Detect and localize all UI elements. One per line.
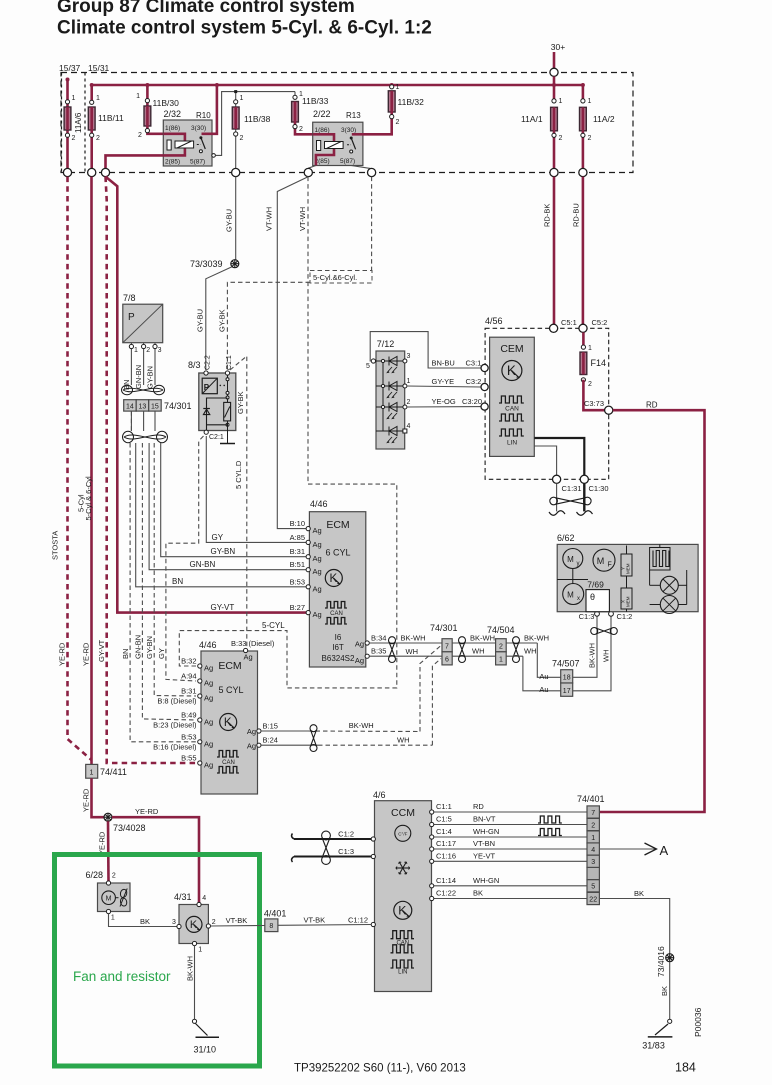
svg-text:2: 2: [407, 399, 411, 406]
heater element: [650, 544, 670, 570]
CCM K icon: [394, 901, 412, 919]
svg-text:74/411: 74/411: [100, 767, 127, 777]
fan resistor 4/31: [172, 892, 216, 954]
svg-text:GY-VT: GY-VT: [97, 639, 106, 662]
svg-text:C5:2: C5:2: [592, 318, 608, 327]
wire GY-BU to AC unit: [206, 267, 232, 370]
svg-text:WH: WH: [524, 647, 537, 656]
lamp 1: [650, 570, 687, 605]
wire RD from F14 to C3:73: [583, 380, 604, 410]
bus junction dots: [90, 83, 94, 87]
svg-text:3: 3: [591, 859, 595, 866]
svg-text:2/32: 2/32: [164, 109, 182, 119]
dashed BK-WH riser to pin7: [420, 646, 441, 732]
MEM X resistor: [621, 584, 633, 612]
svg-text:C3:73: C3:73: [584, 399, 604, 408]
svg-text:2: 2: [559, 135, 563, 142]
svg-text:BN: BN: [172, 577, 183, 586]
fuse 11B/33: [292, 91, 329, 134]
svg-text:GY-BK: GY-BK: [236, 391, 245, 414]
wire GY-BN solid to ECM6: [161, 443, 307, 557]
svg-text:Ag: Ag: [204, 718, 213, 727]
twisted bundle below connector: [124, 435, 166, 439]
svg-text:Group 87 Climate control syste: Group 87 Climate control system: [57, 0, 355, 17]
svg-text:C1:12: C1:12: [348, 916, 368, 925]
svg-text:5: 5: [591, 884, 595, 891]
svg-text:M: M: [567, 591, 574, 600]
svg-text:C2:2: C2:2: [205, 355, 212, 370]
wire YE-RD below 74/411: [92, 778, 105, 817]
wire GY dashed to ECM5 A:94: [166, 436, 204, 681]
svg-text:18: 18: [563, 675, 571, 682]
wires 74/301 to 74/504: [452, 642, 495, 644]
svg-text:30+: 30+: [551, 42, 565, 52]
svg-text:Ag: Ag: [204, 761, 213, 770]
svg-text:74/507: 74/507: [552, 659, 580, 669]
svg-text:CAN: CAN: [330, 611, 343, 617]
svg-text:C1:1: C1:1: [436, 802, 452, 811]
svg-text:B:24: B:24: [263, 736, 278, 745]
svg-text:GN-BN: GN-BN: [133, 635, 142, 659]
svg-text:GY-BN: GY-BN: [145, 636, 154, 659]
svg-text:11A/2: 11A/2: [593, 114, 615, 124]
wire WH-GN row C1: [433, 836, 588, 838]
svg-text:x: x: [577, 596, 580, 602]
wire WH-GN row C5: [433, 885, 588, 887]
svg-text:1: 1: [588, 98, 592, 105]
connector 74/301 pins 14 13 15: [124, 400, 192, 411]
svg-text:TP39252202 S60 (11-), V60 2013: TP39252202 S60 (11-), V60 2013: [294, 1063, 466, 1075]
wire BN-VT row C2: [433, 824, 588, 826]
svg-text:VT-WH: VT-WH: [265, 207, 274, 231]
svg-text:1: 1: [72, 95, 76, 102]
ECM5 left pins: [198, 664, 202, 668]
node C3:1: [481, 364, 488, 371]
svg-text:C5:1: C5:1: [561, 318, 577, 327]
svg-text:Ag: Ag: [313, 567, 322, 576]
ECM6 right pins B:34 B:35: [365, 641, 369, 645]
svg-text:BK: BK: [140, 917, 150, 926]
wire GN-BN dashed to ECM5: [142, 443, 196, 720]
svg-text:2(85): 2(85): [165, 159, 180, 166]
svg-text:2: 2: [138, 132, 142, 139]
svg-text:13: 13: [139, 403, 147, 410]
svg-text:3: 3: [407, 353, 411, 360]
wire GY-VT solid 6cyl: [106, 177, 307, 613]
svg-text:Ag: Ag: [247, 742, 256, 751]
svg-text:M: M: [597, 556, 605, 566]
svg-text:BN-BU: BN-BU: [432, 359, 455, 368]
svg-text:YE-RD: YE-RD: [135, 807, 159, 816]
svg-text:BK-WH: BK-WH: [524, 634, 549, 643]
svg-text:C2:1: C2:1: [209, 434, 224, 441]
svg-text:11A/1: 11A/1: [521, 114, 543, 124]
svg-text:4/401: 4/401: [264, 909, 287, 919]
svg-text:Ag: Ag: [244, 653, 253, 662]
svg-text:C1:3: C1:3: [338, 847, 354, 856]
svg-text:C1:3: C1:3: [579, 612, 595, 621]
svg-text:B:51: B:51: [290, 560, 305, 569]
fuse 11A/2: [580, 98, 615, 168]
splice 73/4028: [104, 813, 112, 821]
svg-text:B:35: B:35: [371, 647, 386, 656]
lamp module 7/12: [366, 339, 411, 449]
wire VT-WH dashed 5cyl routing: [179, 177, 396, 688]
CEM module 4/56: [485, 316, 609, 479]
svg-text:BK-WH: BK-WH: [587, 643, 596, 668]
svg-text:Ag: Ag: [313, 554, 322, 563]
svg-text:GY-VT: GY-VT: [211, 603, 235, 612]
divider 15/37 box: [84, 73, 86, 173]
svg-text:73/4016: 73/4016: [656, 946, 666, 977]
svg-text:GY: GY: [157, 648, 166, 659]
svg-text:B:8 (Diesel): B:8 (Diesel): [157, 697, 197, 706]
svg-text:θ: θ: [590, 592, 595, 602]
fuse 11B/30: [136, 93, 179, 139]
svg-text:4/56: 4/56: [485, 316, 503, 326]
ECM6 left pins: [306, 527, 310, 531]
connector 74/411 pin 1: [86, 764, 98, 778]
fuse 11A/1: [521, 98, 563, 168]
svg-text:VT-BK: VT-BK: [226, 916, 248, 925]
svg-text:K: K: [507, 363, 516, 378]
CEM wire to C1:31: [534, 446, 556, 475]
svg-text:3: 3: [172, 919, 176, 926]
svg-text:74/301: 74/301: [430, 623, 458, 633]
wire YE-OG: [407, 406, 481, 408]
svg-text:3(30): 3(30): [341, 127, 356, 134]
wires up to 6/62: [573, 616, 597, 678]
svg-text:C1:2: C1:2: [338, 830, 354, 839]
thermostat 7/69: [586, 580, 609, 612]
power distribution box 15/31: [61, 73, 633, 173]
svg-text:CCM: CCM: [391, 807, 415, 819]
wire RD-BU: [582, 177, 585, 325]
fuse 11B/32: [364, 84, 425, 134]
connector 74/507 pins 18 17: [539, 659, 579, 697]
svg-text:VT-WH: VT-WH: [298, 207, 307, 231]
svg-text:1: 1: [240, 95, 244, 102]
twisted pair to CCM: [294, 838, 371, 840]
svg-text:Ag: Ag: [204, 679, 213, 688]
svg-text:1: 1: [198, 947, 202, 954]
svg-text:2: 2: [591, 822, 595, 829]
twist on BK-WH WH: [389, 637, 396, 644]
green highlight box fan and resistor: [55, 855, 260, 1067]
arrow A output: [599, 848, 655, 850]
svg-text:MEM: MEM: [626, 563, 631, 574]
CCM module 4/6: [373, 790, 432, 992]
svg-text:2: 2: [240, 135, 244, 142]
svg-text:6: 6: [445, 657, 449, 664]
svg-text:X: X: [621, 600, 626, 603]
svg-text:YE-RD: YE-RD: [98, 831, 107, 855]
svg-text:31/83: 31/83: [642, 1041, 665, 1051]
svg-text:1: 1: [407, 378, 411, 385]
wire BK to ground: [669, 962, 671, 1019]
CCM left pins: [371, 837, 375, 841]
ECM 4/46 6-cyl: [309, 499, 365, 667]
svg-text:WH-GN: WH-GN: [473, 876, 499, 885]
wire GY-BK dashed from annotation to AC relay: [227, 282, 310, 370]
svg-text:4/46: 4/46: [199, 640, 217, 650]
svg-text:15/37: 15/37: [59, 63, 81, 73]
wire GY-BU: [235, 177, 237, 260]
svg-text:8/3: 8/3: [188, 360, 201, 370]
wire VT-BK to 4/401: [211, 925, 265, 928]
wire GY-BN dashed to ECM5: [154, 443, 196, 696]
wire BK-WH from B:15: [261, 730, 308, 732]
svg-text:7/8: 7/8: [123, 293, 136, 303]
svg-text:BK-WH: BK-WH: [185, 956, 194, 981]
relay 2/22 R13: [308, 109, 371, 169]
svg-text:MEM: MEM: [626, 596, 631, 607]
svg-text:YE-VT: YE-VT: [473, 851, 496, 860]
twist on ECM5 pair: [310, 725, 317, 732]
svg-text:1: 1: [499, 657, 503, 664]
svg-text:C1:16: C1:16: [436, 851, 456, 860]
svg-text:WH: WH: [601, 650, 610, 663]
svg-text:C3:2: C3:2: [466, 377, 482, 386]
svg-text:8: 8: [269, 923, 273, 930]
svg-text:GY-BU: GY-BU: [196, 309, 205, 332]
annotation 5-Cyl.&6-Cyl.: [371, 177, 373, 271]
svg-text:7: 7: [591, 810, 595, 817]
svg-text:Au: Au: [539, 685, 548, 694]
connector 74/301 pins 7 6: [430, 623, 458, 665]
svg-text:C1:4: C1:4: [436, 827, 452, 836]
svg-text:17: 17: [563, 688, 571, 695]
svg-text:2: 2: [499, 644, 503, 651]
svg-text:BN-VT: BN-VT: [473, 815, 496, 824]
svg-text:VT-BK: VT-BK: [304, 916, 326, 925]
svg-text:5(87): 5(87): [190, 159, 205, 166]
svg-text:C3:1: C3:1: [466, 359, 482, 368]
wire VT-BN row C4: [433, 848, 588, 850]
splice 73/4016: [666, 954, 674, 962]
svg-text:73/3039: 73/3039: [190, 259, 223, 269]
svg-text:Ag: Ag: [313, 526, 322, 535]
svg-text:6 CYL: 6 CYL: [325, 548, 350, 558]
svg-text:3: 3: [158, 347, 162, 354]
svg-text:B:33 (Diesel): B:33 (Diesel): [231, 639, 275, 648]
svg-text:B6324S2: B6324S2: [322, 654, 355, 663]
svg-text:YE-OG: YE-OG: [432, 397, 456, 406]
svg-text:ECM: ECM: [326, 519, 349, 531]
control unit 7/8: [122, 293, 163, 390]
svg-text:BK-WH: BK-WH: [401, 634, 426, 643]
svg-text:B:53: B:53: [290, 577, 305, 586]
splice 73/3039: [231, 260, 239, 268]
svg-text:C°/F: C°/F: [398, 832, 407, 837]
svg-text:7/69: 7/69: [587, 580, 604, 590]
svg-text:1: 1: [591, 835, 595, 842]
svg-text:GY-YE: GY-YE: [432, 377, 455, 386]
wire YE-VT row C3: [433, 860, 588, 862]
svg-text:74/401: 74/401: [577, 794, 605, 804]
svg-text:2: 2: [112, 873, 116, 880]
svg-text:4: 4: [407, 423, 411, 430]
CCM CAN LIN: [391, 931, 414, 939]
wire GY-VT dashed 5cyl: [106, 177, 197, 763]
svg-text:2: 2: [146, 347, 150, 354]
svg-text:RD-BK: RD-BK: [543, 204, 552, 227]
svg-text:5 CYL.D: 5 CYL.D: [234, 460, 243, 489]
svg-text:CAN: CAN: [505, 406, 519, 413]
CEM LIN wire: [534, 438, 584, 475]
node C5:1: [550, 324, 558, 332]
svg-text:5: 5: [366, 363, 370, 370]
wire YE-RD to fan relay: [112, 817, 199, 902]
svg-text:WH: WH: [397, 736, 410, 745]
svg-text:B:10: B:10: [290, 519, 305, 528]
svg-text:CEM: CEM: [500, 343, 523, 355]
svg-text:GY: GY: [212, 533, 224, 542]
svg-text:4: 4: [591, 847, 595, 854]
svg-text:2: 2: [212, 919, 216, 926]
svg-text:11B/30: 11B/30: [153, 98, 180, 108]
svg-text:Y: Y: [621, 567, 626, 570]
dashed WH riser to pin6: [432, 659, 441, 746]
svg-text:F: F: [608, 562, 612, 569]
svg-text:2: 2: [72, 135, 76, 142]
wire RD row C7: [433, 811, 588, 813]
svg-text:15/31: 15/31: [88, 63, 110, 73]
node C5:2: [579, 324, 587, 332]
svg-text:C1:5: C1:5: [436, 815, 452, 824]
svg-text:Ag: Ag: [313, 540, 322, 549]
svg-text:WH: WH: [406, 647, 419, 656]
svg-text:P: P: [204, 383, 210, 392]
svg-text:WH: WH: [472, 647, 485, 656]
svg-text:LIN: LIN: [507, 440, 517, 447]
fan motor 6/28: [86, 870, 131, 922]
svg-text:RD: RD: [646, 401, 658, 410]
svg-text:Ag: Ag: [355, 640, 364, 649]
svg-text:A:85: A:85: [290, 533, 305, 542]
svg-text:VT-BN: VT-BN: [473, 839, 495, 848]
svg-text:5-Cyl.&6-Cyl.: 5-Cyl.&6-Cyl.: [313, 273, 357, 282]
svg-text:I6: I6: [335, 633, 342, 642]
CCM snowflake icon: [396, 862, 410, 874]
wire BN dashed to ECM5: [130, 443, 196, 742]
svg-text:CAN: CAN: [222, 760, 235, 766]
svg-text:C3:20: C3:20: [462, 397, 482, 406]
svg-text:C1:30: C1:30: [589, 484, 609, 493]
wire BK row C22: [433, 898, 588, 900]
connector 74/504 pins 2 1: [487, 625, 515, 665]
wires below 74/301: [130, 411, 132, 431]
svg-text:22: 22: [589, 896, 597, 903]
svg-text:Ag: Ag: [204, 694, 213, 703]
svg-text:GY-BN: GY-BN: [211, 547, 236, 556]
svg-text:RD-BU: RD-BU: [572, 203, 581, 227]
wire STOSTA 5-Cyl dashed YE-RD: [68, 177, 92, 760]
svg-text:Ag: Ag: [355, 656, 364, 665]
svg-text:B:23 (Diesel): B:23 (Diesel): [153, 721, 197, 730]
svg-text:4/31: 4/31: [174, 892, 192, 902]
svg-text:GN-BN: GN-BN: [190, 560, 216, 569]
twisted bundle 7/8 wires: [123, 388, 163, 391]
svg-text:73/4028: 73/4028: [113, 823, 146, 833]
svg-text:B:55: B:55: [181, 754, 196, 763]
node C3:73: [605, 406, 613, 414]
svg-text:K: K: [398, 903, 406, 917]
ECM5 right pins B:15 B:24: [257, 729, 261, 733]
svg-text:M: M: [567, 555, 574, 564]
twisted pair below CEM: [556, 483, 558, 511]
svg-text:C1:22: C1:22: [436, 889, 456, 898]
svg-text:GN-BN: GN-BN: [134, 365, 143, 389]
ECM 4/46 5-cyl: [199, 640, 258, 794]
svg-text:11A/6: 11A/6: [74, 112, 83, 133]
svg-text:BK: BK: [634, 889, 644, 898]
fuse 11B/11: [88, 95, 124, 170]
svg-text:LIN: LIN: [398, 970, 407, 976]
svg-text:2: 2: [396, 119, 400, 126]
svg-text:GY-BN: GY-BN: [146, 366, 155, 389]
wire VT-WH solid: [277, 177, 308, 529]
svg-text:74/504: 74/504: [487, 625, 515, 635]
ground 31/83: [668, 1019, 672, 1023]
svg-text:BK: BK: [660, 986, 669, 996]
svg-text:1: 1: [90, 770, 94, 777]
svg-text:Ag: Ag: [204, 664, 213, 673]
svg-text:P: P: [128, 312, 135, 323]
svg-text:F14: F14: [591, 358, 607, 368]
main 30-feed bus wire: [92, 84, 583, 87]
svg-text:11B/11: 11B/11: [98, 113, 124, 123]
svg-text:B:16 (Diesel): B:16 (Diesel): [153, 742, 197, 751]
svg-text:1: 1: [96, 95, 100, 102]
svg-text:5(87): 5(87): [340, 158, 355, 165]
svg-text:5-CYL: 5-CYL: [262, 621, 285, 630]
svg-text:M: M: [106, 896, 112, 903]
svg-text:C1:17: C1:17: [436, 839, 456, 848]
wire BK-WH to ground: [194, 946, 196, 1019]
svg-text:B:49: B:49: [181, 711, 196, 720]
node C3:2: [481, 383, 488, 390]
svg-text:C1:31: C1:31: [562, 484, 582, 493]
wire VT-BK to CCM: [278, 924, 371, 927]
svg-text:ECM: ECM: [218, 660, 241, 672]
wire GY solid to ECM6 A:85: [206, 436, 306, 542]
svg-text:7: 7: [445, 644, 449, 651]
svg-text:11B/38: 11B/38: [244, 114, 271, 124]
node C1:2 6/62: [609, 611, 614, 616]
svg-text:R13: R13: [346, 111, 361, 120]
wire BK motor to resistor: [109, 914, 177, 927]
svg-text:B:15: B:15: [263, 722, 278, 731]
svg-text:Ag: Ag: [247, 727, 256, 736]
lamp 2: [650, 596, 687, 614]
svg-text:74/301: 74/301: [164, 401, 192, 411]
svg-text:B:53: B:53: [181, 732, 196, 741]
wire BK-WH from B:34: [369, 642, 442, 644]
svg-text:2/22: 2/22: [313, 109, 331, 119]
svg-text:2: 2: [588, 135, 592, 142]
svg-text:I6T: I6T: [332, 643, 344, 652]
svg-text:1: 1: [111, 915, 115, 922]
svg-text:15: 15: [151, 403, 159, 410]
svg-text:YE-RD: YE-RD: [58, 642, 67, 666]
wire GN-BN solid to ECM6: [149, 443, 306, 570]
svg-text:YE-RD: YE-RD: [82, 788, 91, 812]
svg-text:Au: Au: [539, 672, 548, 681]
svg-text:1: 1: [136, 93, 140, 100]
svg-text:YE-RD: YE-RD: [82, 642, 91, 666]
relay 2/32 R10: [106, 85, 296, 169]
